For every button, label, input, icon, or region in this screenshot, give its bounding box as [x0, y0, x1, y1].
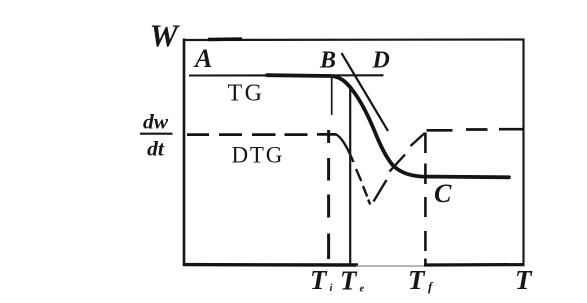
svg-text:W: W [150, 18, 181, 54]
point B drop marker line [331, 77, 333, 115]
Te vertical solid line [349, 86, 351, 264]
DTG left plateau dashed line [187, 133, 336, 136]
TG curve (thick sigmoid) [267, 75, 509, 177]
svg-text:DTG: DTG [232, 143, 285, 168]
svg-text:C: C [434, 179, 452, 208]
axis box bottom edge thick left part [183, 263, 358, 267]
Ti vertical dashed line [327, 130, 330, 259]
svg-text:e: e [360, 284, 365, 295]
axis box bottom edge thick right part [424, 263, 525, 267]
axis box top edge [183, 38, 524, 41]
tangent line through inflection (B-D construction line) [342, 53, 389, 131]
svg-text:D: D [372, 48, 390, 74]
axis box top edge darker segment [208, 37, 242, 41]
DTG knee curve into peak [335, 134, 354, 162]
DTG peak descending dashed leg [356, 169, 370, 205]
svg-text:T: T [515, 265, 533, 295]
y-axis label dw/dt fraction bar [140, 133, 173, 135]
svg-text:A: A [193, 44, 212, 73]
svg-text:T: T [340, 266, 358, 296]
DTG right plateau dashed line [427, 129, 524, 130]
axis box right edge [522, 39, 524, 266]
axis box left edge [183, 39, 186, 267]
svg-text:TG: TG [228, 81, 265, 107]
svg-text:dt: dt [147, 137, 165, 161]
DTG peak ascending dashed leg [374, 133, 426, 202]
svg-text:T: T [408, 265, 426, 295]
svg-text:i: i [330, 283, 333, 294]
axis box bottom edge thin middle part [356, 265, 425, 267]
svg-text:dw: dw [143, 110, 169, 134]
svg-text:B: B [319, 48, 336, 74]
TG baseline horizontal line A to past D [189, 74, 384, 76]
svg-text:T: T [310, 265, 328, 295]
Tf vertical dashed line [424, 133, 427, 266]
